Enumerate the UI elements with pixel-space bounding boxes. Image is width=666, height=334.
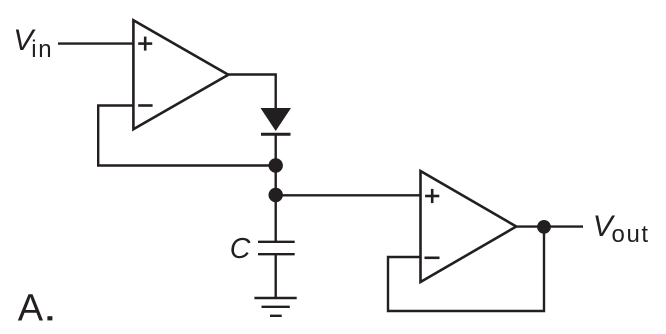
U1 plus pin label bbox=[138, 37, 152, 51]
op-amp U1 bbox=[133, 20, 228, 129]
U2 minus pin label bbox=[425, 256, 440, 259]
wire Vin to U1 noninverting input bbox=[58, 42, 134, 44]
svg-text:C: C bbox=[230, 233, 251, 265]
junction output node bbox=[537, 220, 551, 234]
junction node A bbox=[269, 158, 283, 172]
U2 plus pin label bbox=[425, 189, 439, 203]
junction node B bbox=[269, 188, 283, 202]
op-amp U2 bbox=[421, 171, 517, 282]
wire node A to node B bbox=[275, 166, 277, 196]
wire diode cathode to node A bbox=[275, 134, 277, 166]
node Vin label bbox=[13, 24, 53, 63]
wire U2 output to Vout bbox=[515, 225, 583, 227]
U1 minus pin label bbox=[138, 104, 152, 107]
wire capacitor to ground bbox=[275, 254, 277, 298]
ground bbox=[254, 298, 296, 316]
diode D1 bbox=[261, 108, 292, 134]
node Vout label bbox=[593, 210, 650, 248]
svg-text:A: A bbox=[18, 287, 44, 329]
wire U1 feedback: inverting input to node A bbox=[98, 106, 270, 166]
wire U2 feedback: inverting input to output node bbox=[388, 231, 544, 311]
wire U1 output to diode anode bbox=[227, 75, 276, 111]
wire node B to U2 noninverting input bbox=[276, 194, 421, 196]
capacitor C bbox=[258, 242, 295, 254]
wire node B to capacitor bbox=[275, 195, 277, 242]
svg-text:out: out bbox=[612, 221, 650, 248]
svg-text:in: in bbox=[31, 36, 53, 63]
